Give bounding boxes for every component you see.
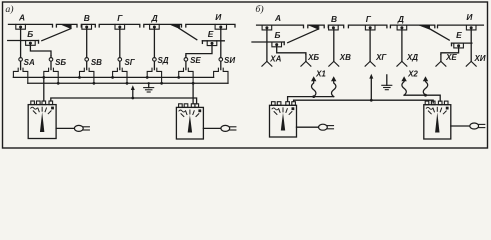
svg-text:ХЕ: ХЕ bbox=[445, 53, 457, 62]
svg-text:Х2: Х2 bbox=[407, 70, 418, 79]
svg-text:В: В bbox=[331, 14, 337, 24]
svg-text:И: И bbox=[466, 12, 473, 22]
svg-text:SВ: SВ bbox=[91, 58, 102, 67]
svg-text:ХД: ХД bbox=[406, 53, 418, 62]
svg-text:А: А bbox=[18, 13, 25, 23]
svg-text:Е: Е bbox=[456, 30, 462, 40]
svg-text:а): а) bbox=[5, 4, 13, 15]
svg-text:Д: Д bbox=[151, 13, 158, 23]
svg-text:SД: SД bbox=[157, 56, 168, 65]
svg-text:И: И bbox=[215, 12, 222, 22]
svg-text:SБ: SБ bbox=[55, 58, 66, 67]
svg-text:Б: Б bbox=[275, 30, 281, 40]
svg-text:б): б) bbox=[255, 4, 263, 15]
svg-text:Х1: Х1 bbox=[315, 69, 326, 78]
svg-text:Г: Г bbox=[117, 13, 123, 23]
svg-text:Е: Е bbox=[208, 29, 214, 39]
svg-text:SГ: SГ bbox=[124, 58, 135, 67]
svg-text:SЕ: SЕ bbox=[190, 56, 201, 65]
svg-text:SА: SА bbox=[24, 58, 35, 67]
svg-text:ХИ: ХИ bbox=[473, 54, 485, 63]
svg-text:В: В bbox=[84, 13, 90, 23]
svg-text:Б: Б bbox=[27, 29, 33, 39]
svg-text:Г: Г bbox=[366, 14, 372, 24]
svg-text:ХБ: ХБ bbox=[307, 53, 319, 62]
svg-text:ХГ: ХГ bbox=[375, 53, 387, 62]
svg-text:ХА: ХА bbox=[269, 54, 281, 63]
svg-text:ХВ: ХВ bbox=[339, 53, 351, 62]
svg-text:SИ: SИ bbox=[224, 56, 235, 65]
svg-text:А: А bbox=[274, 13, 281, 23]
svg-text:Д: Д bbox=[397, 14, 404, 24]
